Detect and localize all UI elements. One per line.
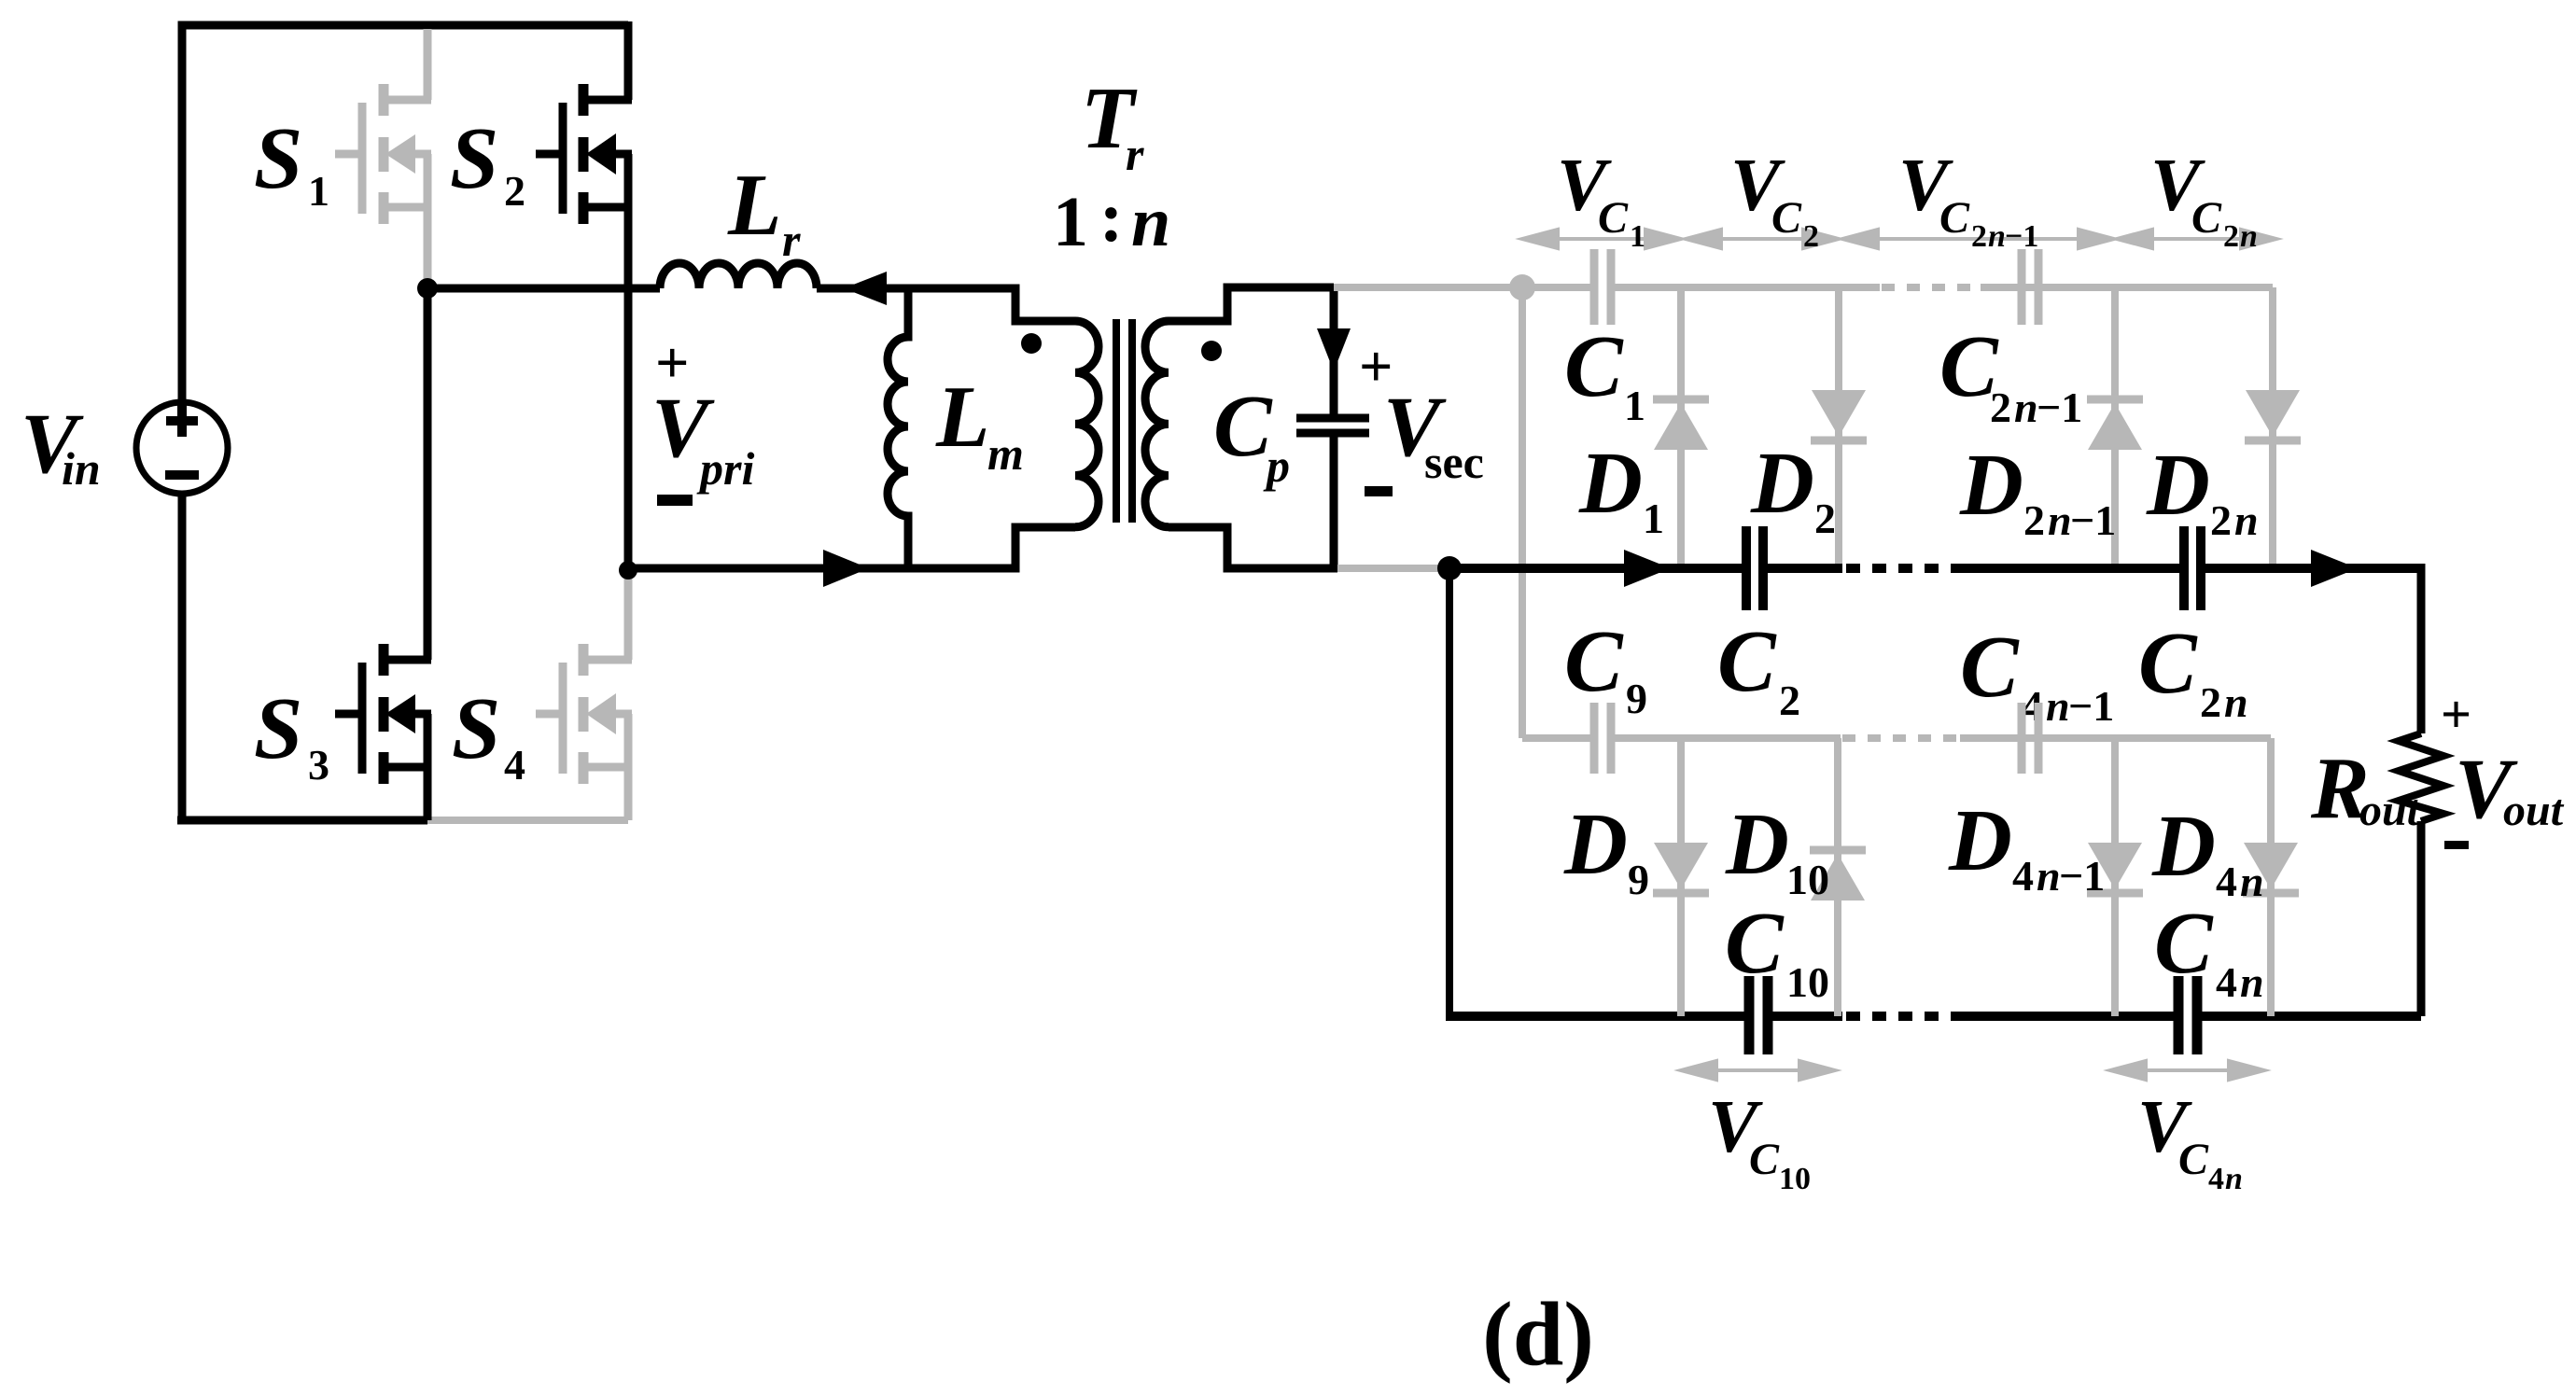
svg-text:2: 2 — [1971, 219, 1987, 254]
capacitor C2n-1 — [2022, 249, 2038, 325]
wire node down left loop — [1446, 568, 1453, 1016]
wire output right edge top — [2417, 564, 2426, 733]
svg-text:D: D — [1959, 437, 2023, 534]
svg-text:C: C — [1564, 318, 1624, 415]
svg-text:m: m — [987, 427, 1024, 480]
svg-text:2: 2 — [1779, 677, 1800, 724]
svg-text:10: 10 — [1786, 958, 1829, 1006]
svg-text:−1: −1 — [2070, 496, 2116, 544]
svg-text:2: 2 — [1814, 495, 1836, 542]
svg-text:−1: −1 — [2037, 384, 2082, 431]
svg-text:S: S — [450, 110, 498, 207]
capacitor Cp — [1330, 287, 1338, 414]
svg-text:n: n — [1988, 219, 2006, 254]
node secondary top gray — [1509, 274, 1535, 300]
svg-text:4: 4 — [2216, 958, 2237, 1006]
svg-text:C: C — [2191, 193, 2222, 243]
svg-text:−1: −1 — [2068, 682, 2114, 730]
svg-text:2: 2 — [504, 167, 525, 215]
svg-text::: : — [1099, 178, 1123, 257]
svg-text:−1: −1 — [2059, 852, 2105, 900]
svg-text:10: 10 — [1786, 856, 1829, 903]
svg-text:S: S — [254, 680, 302, 777]
svg-text:1: 1 — [1630, 219, 1645, 254]
node B — [619, 561, 637, 579]
wire gray C9 rail dashed — [1842, 734, 1960, 742]
wire gray top rail dashed — [1882, 284, 1981, 291]
svg-text:in: in — [62, 442, 101, 495]
svg-text:C: C — [2138, 615, 2198, 712]
arrow VC4n span — [2110, 1061, 2264, 1080]
wire bottom rail black — [177, 817, 427, 825]
svg-text:C: C — [1725, 895, 1785, 992]
svg-text:out: out — [2503, 786, 2565, 835]
diode D10 — [1834, 738, 1841, 1016]
svg-text:2: 2 — [2023, 496, 2045, 544]
transformer dot secondary — [1201, 341, 1222, 361]
arrow current primary top — [844, 272, 887, 305]
svg-text:C: C — [1960, 619, 2020, 716]
svg-text:pri: pri — [696, 442, 754, 495]
svg-text:D: D — [2146, 437, 2210, 534]
transformer dot primary — [1021, 333, 1042, 354]
svg-text:out: out — [2359, 786, 2421, 835]
capacitor C4n-1 — [2022, 703, 2038, 774]
capacitor C2n — [2184, 526, 2201, 610]
wire Lr to primary — [817, 288, 1075, 321]
svg-text:2: 2 — [2200, 678, 2221, 726]
arrow VC1 span — [1522, 230, 1681, 248]
transformer Tr primary winding — [1075, 321, 1099, 527]
svg-text:n: n — [2046, 682, 2070, 730]
transformer core — [1116, 319, 1132, 523]
svg-text:+: + — [2441, 684, 2471, 745]
svg-text:n: n — [1131, 183, 1170, 261]
svg-text:n: n — [2224, 678, 2248, 726]
node A — [417, 278, 438, 299]
svg-text:4: 4 — [504, 741, 525, 789]
inductor Lm — [888, 288, 908, 568]
arrow current primary bottom — [823, 550, 869, 587]
svg-text:C: C — [1717, 613, 1777, 710]
svg-text:1: 1 — [308, 167, 329, 215]
svg-text:C: C — [1213, 378, 1273, 475]
inductor Lr — [660, 263, 817, 288]
source Vin — [136, 402, 228, 494]
diode D2n-1 — [2111, 287, 2119, 564]
svg-text:C: C — [2154, 895, 2214, 992]
svg-text:n: n — [2014, 384, 2038, 431]
svg-text:9: 9 — [1628, 856, 1649, 903]
svg-text:D: D — [1948, 792, 2012, 889]
capacitor C10 — [1749, 976, 1768, 1054]
wire mid rail black — [1449, 564, 2421, 573]
diode D1 — [1677, 287, 1685, 564]
diode D9 — [1677, 738, 1685, 1016]
wire primary bottom lead — [1015, 527, 1075, 568]
svg-text:n: n — [2240, 219, 2258, 254]
diode D4n — [2267, 738, 2275, 1016]
svg-text:(d): (d) — [1482, 1284, 1594, 1385]
svg-text:D: D — [2151, 798, 2216, 895]
svg-text:D: D — [1725, 796, 1789, 893]
svg-text:n: n — [2234, 496, 2259, 544]
svg-text:S: S — [254, 110, 302, 207]
capacitor C1 — [1594, 249, 1611, 325]
svg-text:n: n — [2048, 496, 2072, 544]
svg-text:2: 2 — [2223, 219, 2239, 254]
svg-text:sec: sec — [1424, 436, 1484, 488]
wire gray branch down — [1519, 287, 1526, 738]
svg-text:4: 4 — [2216, 858, 2237, 905]
transistor S1 — [335, 29, 431, 288]
svg-text:4: 4 — [2208, 1162, 2224, 1196]
transformer Tr secondary winding — [1145, 321, 1169, 527]
wire node A to Lr — [427, 285, 660, 293]
arrow mid rail left — [1624, 550, 1671, 587]
wire output bottom rail dashed — [1846, 1012, 1955, 1021]
svg-text:2: 2 — [1803, 219, 1819, 254]
arrow VC2n span — [2117, 230, 2276, 248]
wire top rail — [182, 25, 628, 820]
arrow VC2n-1 span — [1842, 230, 2114, 248]
wire gray mid lead to node — [1337, 565, 1449, 572]
transistor S4 — [536, 570, 632, 820]
svg-text:1: 1 — [1624, 382, 1645, 429]
wire output bottom rail black — [1446, 1012, 2421, 1021]
svg-text:3: 3 — [308, 741, 329, 789]
svg-text:4: 4 — [2012, 852, 2034, 900]
wire secondary bottom lead — [1169, 527, 1337, 568]
wire gray C9 rail — [1522, 734, 2271, 742]
svg-text:10: 10 — [1779, 1162, 1811, 1196]
svg-text:D: D — [1563, 796, 1628, 893]
svg-text:S: S — [452, 680, 500, 777]
arrow VC2 span — [1686, 230, 1839, 248]
capacitor C9 — [1594, 703, 1611, 774]
arrow mid rail right — [2311, 550, 2358, 587]
resistor Rout — [2399, 733, 2443, 821]
arrow VC10 span — [1681, 1061, 1835, 1080]
node mid rail — [1437, 556, 1462, 580]
svg-text:p: p — [1263, 440, 1290, 492]
svg-text:n: n — [2240, 958, 2264, 1006]
svg-text:C: C — [2178, 1135, 2209, 1184]
diode D2 — [1835, 287, 1842, 564]
wire secondary top lead — [1169, 287, 1334, 321]
svg-text:C: C — [1771, 193, 1802, 243]
svg-text:C: C — [1598, 193, 1629, 243]
diode D4n-1 — [2111, 738, 2119, 1016]
svg-text:2: 2 — [1990, 384, 2011, 431]
svg-text:C: C — [1749, 1135, 1780, 1184]
svg-text:2: 2 — [2210, 496, 2232, 544]
wire node B to primary bottom — [628, 527, 1075, 568]
svg-text:1: 1 — [1643, 495, 1664, 542]
svg-text:n: n — [2225, 1162, 2243, 1196]
svg-text:9: 9 — [1626, 675, 1647, 722]
svg-text:r: r — [1126, 128, 1144, 180]
capacitor C4n — [2178, 976, 2197, 1054]
transistor S3 — [335, 288, 431, 820]
transistor S2 — [536, 21, 632, 570]
svg-text:C: C — [1939, 193, 1970, 243]
wire bottom rail gray segment — [427, 817, 628, 824]
svg-text:1: 1 — [1053, 183, 1088, 261]
svg-text:C: C — [1564, 613, 1624, 710]
diode D2n — [2269, 287, 2276, 564]
svg-text:−1: −1 — [2005, 219, 2038, 254]
wire mid rail dashed — [1846, 564, 1955, 573]
svg-text:D: D — [1750, 435, 1814, 532]
svg-text:n: n — [2240, 858, 2264, 905]
capacitor C2 — [1746, 526, 1763, 610]
wire output right edge bottom — [2417, 821, 2426, 1016]
svg-text:L: L — [935, 369, 989, 466]
wire gray top rail — [1334, 284, 2273, 291]
svg-text:D: D — [1578, 435, 1643, 532]
svg-text:r: r — [782, 214, 801, 266]
svg-text:n: n — [2037, 852, 2061, 900]
svg-text:L: L — [727, 157, 781, 254]
